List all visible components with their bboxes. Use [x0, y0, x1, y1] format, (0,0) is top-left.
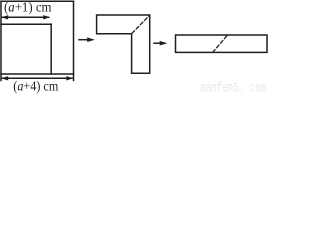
dimension arrow (a+1) line [3, 16, 49, 18]
big square (a+4): right edge with extension [73, 1, 75, 80]
transform arrow 2 line [154, 42, 165, 44]
L-shape outline [97, 15, 150, 73]
arrowhead of transform arrow 2 [160, 41, 168, 46]
svg-text:(a+4) cm: (a+4) cm [13, 80, 58, 94]
arrowhead right of (a+1) dimension [43, 15, 50, 19]
arrowhead right of (a+4) dimension [66, 76, 73, 80]
dashed seam inside rectangle [213, 35, 228, 52]
inner square (a+1): top edge [1, 23, 51, 25]
dimension arrow (a+4) line [3, 77, 73, 79]
svg-text:manfen5. com: manfen5. com [201, 81, 267, 95]
arrowhead of transform arrow 1 [87, 37, 95, 42]
svg-text:(a+1) cm: (a+1) cm [4, 1, 52, 16]
big square (a+4): left edge with extension [0, 1, 2, 80]
big square (a+4): bottom edge [1, 73, 74, 75]
inner square (a+1): right edge [50, 24, 52, 74]
arrowhead left of (a+1) dimension [1, 15, 8, 19]
long rectangle [176, 35, 268, 52]
arrowhead left of (a+4) dimension [1, 76, 8, 80]
dashed cut line of L-shape corner [132, 16, 149, 34]
big square (a+4): top edge [1, 0, 74, 2]
transform arrow 1 line [79, 39, 92, 41]
